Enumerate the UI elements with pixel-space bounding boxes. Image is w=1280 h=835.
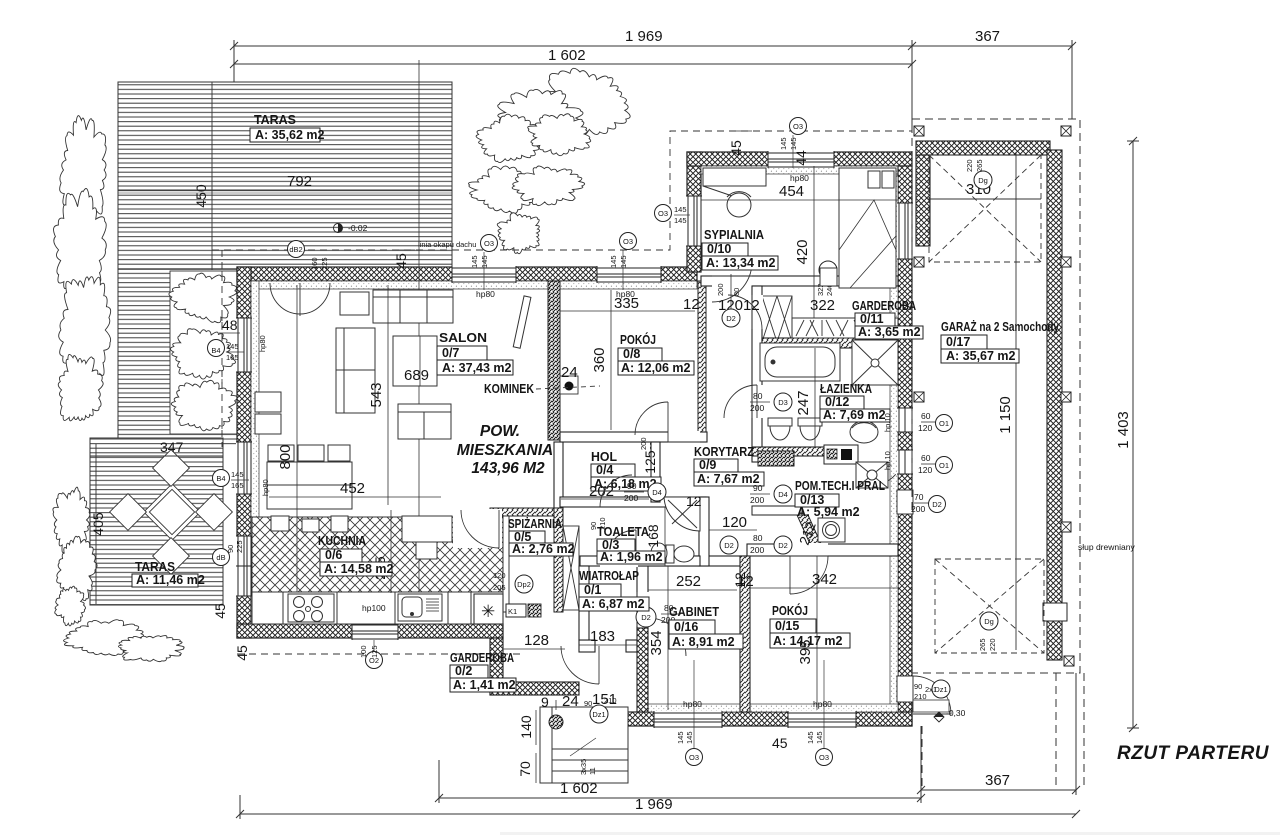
dim 45 top salon [393, 250, 415, 269]
svg-text:11: 11 [588, 767, 597, 775]
svg-text:KOMINEK: KOMINEK [484, 381, 534, 396]
door east Dz1 bottom [897, 676, 913, 702]
svg-text:✳: ✳ [481, 602, 495, 621]
svg-text:125: 125 [370, 645, 379, 658]
svg-text:A: 37,43 m2: A: 37,43 m2 [442, 361, 512, 375]
label POKOJ15 [770, 603, 850, 648]
svg-text:D2: D2 [724, 541, 734, 550]
label POW. MIESZKANIA [457, 423, 553, 477]
wall hol/korytarz [651, 442, 660, 502]
terrace upper TARAS 35,62 hatch [118, 82, 452, 447]
wc + bidet [768, 418, 822, 440]
wall gabinet/pokoj15 [740, 556, 750, 712]
dim 120 korytarz [709, 514, 757, 531]
ref circle Dz1 east + texts [914, 680, 950, 701]
svg-text:Dz1: Dz1 [592, 710, 605, 719]
window mark 90/225 west kitchen [213, 540, 245, 565]
wall pokoj8 bottom [560, 431, 707, 443]
dim 335 pokoj8 [560, 295, 695, 312]
svg-text:247: 247 [795, 390, 812, 415]
svg-text:O3: O3 [793, 122, 803, 131]
armchair sypialnia [727, 192, 751, 217]
svg-text:70: 70 [517, 761, 533, 777]
svg-text:145: 145 [674, 216, 687, 225]
window pokoj top [597, 266, 661, 283]
front door wall stubs [579, 640, 637, 652]
tree conifer large top [476, 68, 630, 162]
wall hol west [554, 442, 563, 508]
svg-text:GARDEROBA: GARDEROBA [852, 298, 916, 313]
dim line vertical 689 chain [418, 60, 420, 592]
bathtub [760, 343, 840, 381]
svg-text:24: 24 [562, 693, 579, 710]
door arc Dz1 east [913, 676, 951, 714]
sink kitchen [398, 594, 442, 621]
carport gate X upper [929, 155, 1041, 262]
label TARAS lower [132, 559, 205, 587]
svg-text:120: 120 [722, 514, 747, 531]
svg-text:WIATROŁAP: WIATROŁAP [579, 568, 639, 583]
svg-text:12: 12 [732, 572, 748, 588]
svg-text:1 969: 1 969 [635, 796, 673, 813]
svg-text:12: 12 [686, 493, 702, 509]
label HOL [591, 449, 661, 491]
svg-text:A: 6,87 m2: A: 6,87 m2 [582, 597, 645, 611]
wall pokoj15 top [747, 543, 898, 557]
svg-text:454: 454 [779, 183, 804, 200]
svg-text:O3: O3 [658, 209, 668, 218]
svg-text:220: 220 [988, 638, 997, 651]
dims 9 24 151 140 70 [517, 691, 617, 783]
svg-text:O1: O1 [939, 419, 949, 428]
label POM TECH [795, 478, 885, 519]
svg-text:2x1: 2x1 [925, 685, 937, 694]
svg-text:168: 168 [645, 524, 661, 548]
svg-text:hp100: hp100 [362, 603, 386, 613]
svg-text:O3: O3 [689, 753, 699, 762]
svg-text:45: 45 [393, 253, 409, 269]
svg-text:145: 145 [470, 255, 479, 268]
planting bed [170, 271, 237, 434]
dim 45 44 top [728, 131, 809, 166]
svg-text:A: 7,69 m2: A: 7,69 m2 [823, 408, 886, 422]
svg-text:90: 90 [753, 483, 763, 493]
svg-text:GARAŻ na 2 Samochody: GARAŻ na 2 Samochody [941, 319, 1060, 334]
dims 12 120 12 pokoj8 [683, 296, 760, 314]
svg-text:SALON: SALON [439, 330, 487, 345]
svg-text:Dp2: Dp2 [517, 580, 531, 589]
pokoj8 labels [618, 332, 694, 375]
carport gate X lower [935, 559, 1044, 653]
svg-text:A: 1,96 m2: A: 1,96 m2 [600, 550, 663, 564]
svg-text:145: 145 [789, 137, 798, 150]
svg-text:225: 225 [320, 257, 329, 270]
svg-text:200: 200 [716, 283, 725, 296]
svg-text:60: 60 [921, 411, 931, 421]
svg-text:145: 145 [815, 731, 824, 744]
level mark -0.02 [334, 223, 368, 233]
svg-text:A: 13,34 m2: A: 13,34 m2 [706, 256, 776, 270]
svg-text:342: 342 [812, 571, 837, 588]
svg-text:143,96 M2: 143,96 M2 [471, 460, 545, 477]
label LAZIENKA [820, 381, 890, 422]
kominek wall [548, 281, 560, 440]
dim 48 planting [219, 317, 240, 333]
window salon top 1 [452, 266, 516, 283]
shower lazienka [852, 340, 898, 385]
dim 454 sypialnia [701, 183, 898, 200]
window east pomtech [897, 450, 913, 474]
svg-text:200: 200 [639, 437, 648, 450]
ref Dp2 circle spizarnia [493, 571, 533, 593]
svg-text:O3: O3 [623, 237, 633, 246]
dim 265/220 garage bottom [978, 638, 997, 651]
window west kitchen [236, 536, 252, 596]
wardrobe sypialnia [703, 168, 766, 199]
svg-text:24: 24 [561, 364, 578, 381]
terrace lower TARAS 11,46 hatch [90, 438, 223, 605]
window sypialnia top [768, 151, 834, 168]
wall east [890, 166, 912, 726]
pantry shelving X [563, 526, 579, 610]
door east garage D2 [897, 490, 913, 514]
svg-text:45: 45 [234, 645, 250, 661]
label WIATROLAP [579, 568, 649, 611]
dims 128 183 [524, 628, 615, 649]
dim 543 salon [368, 285, 388, 505]
door arc gabinet [648, 618, 686, 656]
svg-text:GARDEROBA: GARDEROBA [450, 650, 514, 665]
wall kitchen bottom [237, 616, 503, 638]
spizarnia walls [490, 508, 563, 612]
svg-text:225: 225 [235, 540, 244, 553]
window mark B west salon [208, 335, 268, 362]
svg-text:205: 205 [493, 583, 506, 592]
svg-text:210: 210 [914, 692, 927, 701]
wall pokoj8 east [698, 281, 706, 442]
dim 202 hol [561, 483, 649, 500]
table set on lower terrace [110, 450, 233, 575]
sofa top salon [340, 290, 453, 323]
door arc pokoj15 [790, 556, 828, 594]
level -0,30 [934, 708, 966, 722]
svg-text:hp80: hp80 [258, 335, 267, 352]
door arc lazienka [724, 385, 757, 418]
svg-text:A: 8,91 m2: A: 8,91 m2 [672, 635, 735, 649]
door mark D2 circle hol [720, 536, 738, 554]
wall west [237, 267, 259, 638]
svg-text:125: 125 [642, 450, 658, 474]
window mark B west dining [213, 470, 271, 497]
svg-text:367: 367 [975, 28, 1000, 45]
dim 347 [90, 439, 223, 456]
dim 1150 garage [997, 152, 1016, 650]
svg-text:347: 347 [160, 439, 184, 455]
top wall marks: O3 circles & 145 [470, 235, 498, 300]
dim line 1602 bottom [435, 726, 925, 803]
door arc toaleta [606, 530, 636, 560]
dim line 1403 right [1127, 137, 1139, 732]
dim 689 salon [404, 336, 429, 386]
dim 252 / 12 / 342 [676, 571, 837, 590]
svg-text:367: 367 [985, 772, 1010, 789]
svg-text:Dg: Dg [984, 617, 994, 626]
dim 420 sypialnia [794, 166, 814, 338]
svg-text:A: 5,94 m2: A: 5,94 m2 [797, 505, 860, 519]
dim 800 salon [277, 285, 297, 620]
label SYPIALNIA [702, 227, 778, 270]
door arc sypialnia [712, 262, 752, 302]
garage west pillar wall [916, 155, 930, 246]
dim 310 garage [929, 181, 1041, 199]
svg-text:90: 90 [627, 481, 637, 491]
entrance steps [540, 707, 628, 783]
svg-text:0/12: 0/12 [825, 395, 849, 409]
dim 450 vertical [193, 82, 212, 270]
garage dashed outline [912, 119, 1084, 790]
svg-text:120: 120 [918, 465, 932, 475]
wall wiatrolap west [579, 566, 589, 640]
svg-text:hp80: hp80 [616, 289, 635, 299]
O2 mark kitchen bottom [359, 640, 383, 669]
tree cypress lower left [53, 487, 97, 626]
dim line 1602 top [230, 60, 916, 68]
svg-text:dB2: dB2 [289, 245, 302, 254]
door arc garderoba11 [728, 295, 762, 329]
dim 168 toaleta [645, 507, 665, 566]
svg-text:K1: K1 [508, 607, 517, 616]
hol-wiatrolap door arc [600, 475, 632, 507]
svg-text:0/17: 0/17 [946, 335, 970, 349]
svg-text:hp80: hp80 [790, 173, 809, 183]
garage east wall post gap [1043, 603, 1067, 621]
svg-text:0/10: 0/10 [707, 242, 731, 256]
dim 3x35/11 [579, 759, 597, 775]
svg-text:689: 689 [404, 367, 429, 384]
threshold east door [913, 700, 949, 712]
svg-text:45: 45 [772, 735, 788, 751]
garage top wall [916, 141, 1050, 155]
fireplace dot [484, 376, 600, 396]
svg-text:POW.: POW. [480, 423, 520, 440]
svg-text:1 403: 1 403 [1115, 411, 1132, 449]
svg-text:210: 210 [598, 517, 607, 530]
wall bedroom-block west [687, 152, 701, 272]
wall toaleta east [699, 497, 709, 566]
svg-text:D3: D3 [778, 398, 788, 407]
dim line 1969 bottom [236, 795, 1080, 819]
wall garderoba11/lazienka [762, 338, 898, 348]
dim 90/210 toaleta door [589, 517, 607, 530]
dim 220/265 garage top [965, 159, 984, 172]
svg-text:165: 165 [231, 481, 244, 490]
garderoba 0/2 block walls [490, 638, 579, 695]
window west salon [236, 318, 252, 372]
gabinet west exterior wall [637, 628, 648, 712]
svg-text:90: 90 [589, 522, 598, 530]
door mark D2 pokoj15 [750, 533, 792, 555]
svg-text:dB: dB [216, 553, 225, 562]
wall pomtech diagonal [752, 506, 822, 546]
svg-text:A: 1,41 m2: A: 1,41 m2 [453, 678, 516, 692]
label GABINET [669, 604, 743, 649]
washbasin lazienka [850, 421, 878, 443]
svg-text:151: 151 [592, 691, 617, 708]
svg-text:145: 145 [480, 255, 489, 268]
svg-text:A: 12,06 m2: A: 12,06 m2 [621, 361, 691, 375]
svg-text:183: 183 [590, 628, 615, 645]
bottom wall window marks hp80 O3 [676, 660, 833, 766]
svg-text:SYPIALNIA: SYPIALNIA [704, 227, 765, 242]
label TOALETA [597, 524, 665, 564]
column at steps [549, 715, 563, 729]
dim 45 kitchen left [212, 603, 250, 661]
svg-text:0/8: 0/8 [623, 347, 640, 361]
svg-text:słup drewniany: słup drewniany [1078, 542, 1135, 552]
svg-text:200: 200 [750, 403, 764, 413]
label KUCHNIA [318, 533, 394, 576]
window kitchen bottom [352, 623, 398, 640]
fridge [474, 594, 503, 624]
svg-text:145: 145 [619, 255, 628, 268]
svg-text:GABINET: GABINET [669, 604, 719, 619]
svg-text:hp80: hp80 [683, 699, 702, 709]
svg-text:0/4: 0/4 [596, 463, 613, 477]
wall hol bottom / toaleta top [560, 497, 706, 507]
svg-text:48: 48 [222, 317, 238, 333]
svg-text:Dg: Dg [978, 176, 988, 185]
dim 247 lazienka [795, 348, 815, 447]
svg-text:265: 265 [978, 638, 987, 651]
window gabinet bottom [654, 711, 722, 728]
toaleta sink [651, 543, 667, 563]
svg-text:1 969: 1 969 [625, 28, 663, 45]
svg-text:450: 450 [193, 184, 209, 208]
svg-text:1 602: 1 602 [548, 47, 586, 64]
svg-text:145: 145 [609, 255, 618, 268]
svg-text:A: 35,67 m2: A: 35,67 m2 [946, 349, 1016, 363]
svg-text:140: 140 [518, 715, 534, 739]
ref circle Dg upper [974, 171, 992, 189]
svg-text:395: 395 [797, 639, 814, 664]
wall gabinet top [637, 556, 747, 566]
svg-text:354: 354 [648, 630, 665, 655]
svg-text:POM.TECH.I PRAL: POM.TECH.I PRAL [795, 478, 885, 493]
svg-text:265: 265 [975, 159, 984, 172]
svg-text:0/9: 0/9 [699, 458, 716, 472]
window sypialnia east [897, 203, 913, 259]
svg-text:165: 165 [226, 353, 239, 362]
svg-text:SPIŻARNIA: SPIŻARNIA [508, 516, 562, 531]
label GARDEROBA 0/11 [852, 298, 923, 339]
svg-text:145: 145 [231, 470, 244, 479]
dining table [255, 392, 352, 509]
svg-text:145: 145 [806, 731, 815, 744]
scan edge bottom [500, 832, 1280, 835]
svg-text:145: 145 [226, 342, 239, 351]
K1 boxes [506, 604, 541, 617]
svg-text:252: 252 [676, 573, 701, 590]
svg-text:543: 543 [368, 382, 385, 407]
svg-text:120: 120 [918, 423, 932, 433]
svg-text:D2: D2 [641, 613, 651, 622]
washing machine pomtech [818, 518, 845, 542]
svg-text:POKÓJ: POKÓJ [620, 332, 656, 347]
door mark D2 wiatrolap [636, 603, 681, 627]
svg-text:200: 200 [911, 504, 925, 514]
bar stools kitchen [271, 516, 348, 532]
door mark D3 lazienka [750, 391, 792, 413]
svg-text:120: 120 [493, 571, 506, 580]
svg-text:linia okapu dachu: linia okapu dachu [418, 240, 476, 249]
dim 792 [118, 173, 452, 193]
door mark D4 pomtech [750, 483, 792, 505]
svg-text:145: 145 [685, 731, 694, 744]
svg-text:322: 322 [810, 297, 835, 314]
wall sanitary west (korytarz east) [751, 286, 763, 462]
coffee table salon [393, 336, 437, 386]
dim 354 gabinet [648, 566, 668, 710]
window mark O3 sypialnia west [655, 205, 691, 226]
svg-text:60: 60 [921, 453, 931, 463]
wooden posts [914, 126, 1074, 666]
dim 395 pokoj15 [797, 556, 817, 710]
svg-text:D2: D2 [778, 541, 788, 550]
svg-text:ŁAZIENKA: ŁAZIENKA [820, 381, 872, 396]
wall top salon [237, 267, 697, 289]
svg-text:420: 420 [794, 239, 811, 264]
svg-text:1 150: 1 150 [997, 396, 1014, 434]
svg-text:hp.10: hp.10 [883, 413, 892, 432]
svg-text:hp80: hp80 [261, 479, 270, 496]
kitchen floor crosshatch [252, 517, 503, 592]
svg-text:D4: D4 [778, 490, 788, 499]
svg-text:200: 200 [750, 545, 764, 555]
dim line 367 bottom [917, 673, 1080, 795]
wardrobe garderoba11 [792, 318, 898, 338]
svg-text:80: 80 [753, 533, 763, 543]
sofa bottom salon [398, 404, 451, 439]
dim 360 pokoj8 [591, 290, 611, 430]
dim 452 salon [269, 480, 441, 497]
svg-text:hp80: hp80 [813, 699, 832, 709]
svg-text:0/1: 0/1 [584, 583, 601, 597]
svg-text:220: 220 [965, 159, 974, 172]
kitchen counter bottom [252, 592, 503, 624]
wall sypialnia bottom [701, 275, 898, 287]
svg-text:-0.02: -0.02 [348, 223, 368, 233]
toaleta wc [666, 545, 694, 563]
svg-text:80: 80 [753, 391, 763, 401]
tree cloud mid [468, 166, 584, 213]
east wall dim marks 60/120 O1 [918, 411, 953, 433]
dim 245 kitchen [372, 510, 391, 593]
wall bottom (gabinet/pokoj) [626, 704, 912, 726]
svg-text:D4: D4 [652, 488, 662, 497]
svg-text:70: 70 [914, 492, 924, 502]
label TARAS upper [250, 112, 325, 142]
svg-text:A: 35,62 m2: A: 35,62 m2 [255, 128, 325, 142]
door arc pokoj8 [635, 402, 668, 435]
svg-text:200: 200 [750, 495, 764, 505]
svg-text:12: 12 [683, 296, 700, 313]
svg-text:145: 145 [674, 205, 687, 214]
svg-text:D2: D2 [726, 314, 736, 323]
door mark D4 hol korytarz [624, 481, 666, 503]
grass tufts bottom left [64, 620, 185, 662]
svg-text:0/15: 0/15 [775, 619, 799, 633]
svg-text:hp.10: hp.10 [883, 451, 892, 470]
